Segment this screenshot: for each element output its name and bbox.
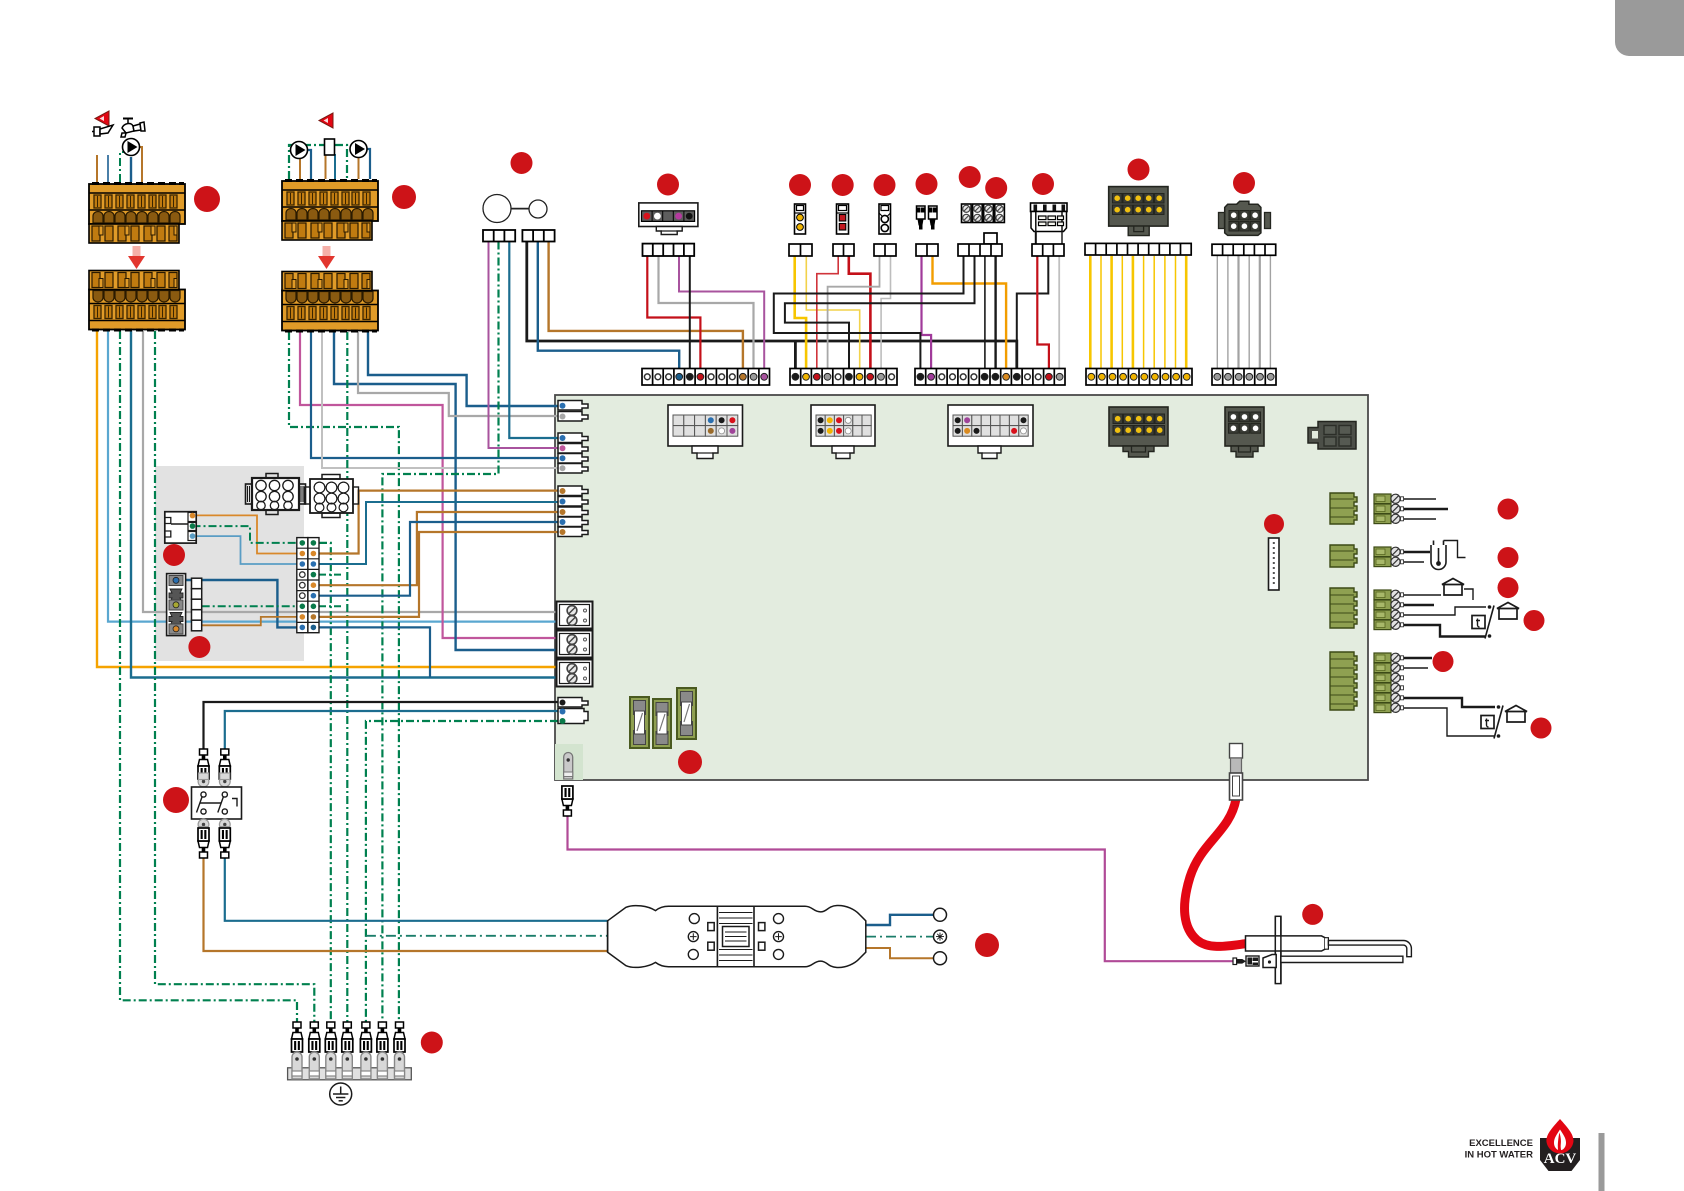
wire: connector2 green earth loop around pumps xyxy=(289,145,347,179)
igniter upper electrode rod with bend xyxy=(1328,941,1411,957)
wire: gauge earth green to ground terminal 6 xyxy=(382,242,498,1025)
D2 strip xyxy=(1212,244,1276,255)
connector D1 above board (yellow pins) xyxy=(1109,187,1168,236)
wire: grayzone cells green to strip row7 xyxy=(202,605,297,607)
callout circle: relay xyxy=(1032,173,1054,195)
thermostat switch 1 xyxy=(1472,605,1494,638)
relay strip xyxy=(1032,244,1064,256)
PCB right green block b2 xyxy=(1330,545,1357,567)
wire: sensorA yellow thin to strip2 cell7 xyxy=(806,256,859,374)
callout circle: sensorC xyxy=(874,174,896,196)
wire: plug orange to strip3 cell9 xyxy=(933,256,1007,374)
wire: sensorA yellow thick to strip2 cell2 xyxy=(795,256,806,374)
off-board screw block s2 xyxy=(1374,541,1466,570)
PCB screw block S3 xyxy=(557,660,593,687)
svg-text:ACV: ACV xyxy=(1544,1151,1577,1167)
callout circle: sensorB xyxy=(832,174,854,196)
red marker triangle connector2 xyxy=(319,113,333,128)
wire: connector1 top brown from pump right xyxy=(140,147,142,182)
wire: grayzone strip row6 blue to PCB conn C4 xyxy=(319,522,558,596)
callout circle: right s4b xyxy=(1531,718,1552,739)
PCB lighter sub-area bottom-left xyxy=(555,744,583,780)
wire: D1 yellow bundle to strip4 xyxy=(1090,256,1186,374)
wire: connector1 light blue to PCB screw block1 xyxy=(108,331,558,622)
PCB bottom fuse holder xyxy=(1230,744,1243,801)
switch lug top right xyxy=(219,773,230,787)
wire: harness right brown to ring xyxy=(866,948,933,958)
wire: grayzone strip row3 blue to PCB conn C2 xyxy=(319,502,558,564)
D1 strip xyxy=(1085,243,1191,255)
wire: grayzone strip row2 brown to PCB conn C1 xyxy=(319,491,558,554)
terminal strip strip3 xyxy=(915,369,1065,386)
wire: sensorC gray to strip2 cell4 xyxy=(828,256,880,374)
connector assembly 1 upper orange plug xyxy=(89,182,185,243)
wire: black bus drop to strip2 cell1 xyxy=(794,341,797,374)
connector D2 above board (6 white pins) xyxy=(1219,201,1271,235)
faucet icon xyxy=(121,119,145,138)
switch lug bottom right xyxy=(219,819,230,833)
wire: relay gray to strip3 cell14 xyxy=(1058,256,1060,374)
burner icon xyxy=(92,125,113,136)
connector assembly 1 lower orange plug (mirrored) xyxy=(89,271,185,332)
red arrow between connector1 plugs xyxy=(128,246,145,269)
wire: sensorB red thick to strip2 cell8 xyxy=(849,256,871,374)
wire: connector1 gray to PCB screw block1 xyxy=(143,331,558,612)
wire: screwblock black B to strip2 cell6 xyxy=(785,256,975,374)
wire: PCB blue to switch xyxy=(225,711,558,749)
wire: grayzone latch blue to block strip row3 xyxy=(193,536,298,564)
connector assembly 2 upper orange plug xyxy=(282,179,378,240)
switch box xyxy=(192,787,242,819)
callout circle: gauge xyxy=(511,152,533,174)
PCB fuse F2 xyxy=(653,699,671,748)
wire: connector1 top stub brown xyxy=(96,155,98,182)
PCB left edge connector B (4 units) xyxy=(558,433,588,473)
round 9pin connector R2 xyxy=(305,475,359,518)
switch fork top blue xyxy=(219,749,230,779)
terminal strip strip5 xyxy=(1212,369,1276,386)
wire: plug purple to strip3 cell2 xyxy=(922,256,932,374)
PCB connector P3 xyxy=(948,405,1033,459)
wire: igniter magenta supply xyxy=(568,810,1234,961)
ACV logo flame xyxy=(1546,1119,1573,1153)
pump P1 (connector1) xyxy=(123,139,140,156)
callout circle: grayzone1 xyxy=(163,544,185,566)
callout circle: connector1 xyxy=(194,186,220,212)
harness circles left xyxy=(689,914,699,924)
wire: D2 gray bundle to strip5 xyxy=(1217,256,1270,374)
wire: connector2 top blue valve xyxy=(334,154,336,179)
wire: display gray to strip1 cell11 xyxy=(659,256,754,374)
wire: display red to strip1 cell6 xyxy=(647,256,700,374)
svg-text:IN HOT WATER: IN HOT WATER xyxy=(1465,1150,1534,1161)
wire: grayzone 4pin blue to strip row9 xyxy=(180,580,298,627)
igniter lower electrode rod xyxy=(1281,956,1403,962)
off-board screw block s4 xyxy=(1374,653,1527,739)
wire: sensorB red thin to strip2 cell3 xyxy=(817,256,838,374)
callout circle: PCB fuses xyxy=(678,750,702,774)
PCB screw block S2 xyxy=(557,631,593,658)
off-board screw block s3 xyxy=(1374,579,1519,639)
gray zone box (internal connections area) xyxy=(155,466,304,661)
switch lug bottom left xyxy=(198,819,209,833)
gauge strip B xyxy=(522,230,554,242)
wire: gauge blue to strip1 cell4 xyxy=(538,242,679,375)
terminal strip strip4 xyxy=(1086,369,1192,386)
wire: connector2 magenta to PCB screw block2 xyxy=(300,332,558,638)
wire: gauge brown to strip1 cell10 xyxy=(549,242,743,375)
igniter bracket xyxy=(1263,955,1276,968)
off-board screw block s1 xyxy=(1374,494,1448,524)
callout circle: plugs xyxy=(916,173,938,195)
red marker triangle connector1 xyxy=(95,111,109,126)
gray page bar xyxy=(1599,1133,1605,1191)
igniter flange xyxy=(1275,916,1281,983)
switch lug top left xyxy=(198,773,209,787)
connector assembly 2 lower orange plug (mirrored) xyxy=(282,272,378,333)
switch fork bottom left xyxy=(198,828,209,858)
callout circle: screwblock2 xyxy=(985,177,1007,199)
callout circle: grayzone2 xyxy=(188,636,210,658)
PCB connector D3 (4 pin) xyxy=(1308,422,1356,450)
PCB right green block b3 xyxy=(1330,588,1357,628)
wire: connector2 top brown pump2 xyxy=(358,157,360,179)
callout circle: right s1 xyxy=(1498,499,1519,520)
terminal strip strip1 xyxy=(642,369,770,386)
PCB screw block S1 xyxy=(557,602,593,629)
earth forks row xyxy=(292,1022,303,1052)
igniter assembly xyxy=(1233,916,1411,983)
white cells column xyxy=(192,578,202,631)
callout circle: connector2 xyxy=(392,185,416,209)
wire: grayzone strip row5 brown to PCB conn C3 xyxy=(319,512,558,585)
wire: harness right green to ring xyxy=(866,936,933,938)
house icon 3 xyxy=(1505,706,1527,723)
earth ground symbol xyxy=(330,1083,352,1105)
sensorB strip xyxy=(833,244,854,256)
wire: connector2 gray to PCB conn A2 xyxy=(358,332,558,416)
PCB fuse F3 xyxy=(677,688,696,739)
wire: grayzone latch orange to block strip row2 xyxy=(193,515,298,553)
screw terminal block icon xyxy=(962,204,1005,223)
wire: display purple to strip1 cell12 xyxy=(679,256,764,374)
PCB connector D2 (white pins) xyxy=(1225,407,1264,457)
sensor icon C (white) xyxy=(879,204,891,234)
house icon 1 xyxy=(1442,579,1464,596)
grayzone 2col terminal block xyxy=(297,538,319,633)
PCB connector P2 xyxy=(811,405,875,459)
display unit xyxy=(639,203,698,235)
red arrow between connector2 plugs xyxy=(318,246,335,269)
display strip xyxy=(643,244,695,256)
callout circle: D2 xyxy=(1233,172,1255,194)
wire: connector2 dark blue to PCB screw block2 xyxy=(334,332,558,650)
round 9pin connector R1 xyxy=(246,474,306,515)
wire: connector2 gray to PCB conn B4 xyxy=(322,332,558,468)
wire: connector2 dark blue to PCB conn B3 xyxy=(311,332,558,458)
switch fork bottom right xyxy=(219,828,230,858)
PCB right green block b1 xyxy=(1330,493,1357,524)
callout circle: D1 xyxy=(1128,159,1150,181)
wire: gauge teal to PCB conn B1 xyxy=(509,242,558,439)
pump P3 xyxy=(350,141,367,158)
wire: sensorC gray to strip2 cell9 xyxy=(881,256,890,374)
s3 wires xyxy=(1404,595,1486,637)
harness right ring terminals xyxy=(934,908,947,921)
sensor icon B (red) xyxy=(837,204,849,234)
callout circle: igniter xyxy=(1302,904,1323,925)
wire: screwblock black D to strip3 cell8 xyxy=(994,256,996,374)
callout circle: right s3b xyxy=(1524,610,1545,631)
switch fork top black xyxy=(198,749,209,779)
mains cable harness body xyxy=(608,905,866,967)
wire: grayzone strip row1 green to ground terminal 3 xyxy=(319,543,331,1024)
wire: harness right blue to ring xyxy=(866,915,933,925)
wire: connector2 top brown pump1 xyxy=(299,158,301,179)
PCB fuse F1 xyxy=(630,697,649,748)
s1 wires xyxy=(1404,499,1448,519)
sensorC strip xyxy=(874,244,896,256)
wire: connector2 top blue pump1 xyxy=(307,150,311,179)
pump P2 xyxy=(291,142,308,159)
wire: connector2 top brown valve xyxy=(325,155,327,179)
screwblock strip with raised cell xyxy=(958,233,1002,256)
wire: grayzone latch green to block strip row1 xyxy=(193,526,298,543)
wire: PCB earth green to ground terminal 5 xyxy=(366,721,558,1024)
sensor icon A (yellow) xyxy=(795,204,806,234)
wire: gauge purple to PCB conn B2 xyxy=(489,242,559,449)
wire: connector1 top stub light blue xyxy=(107,155,109,182)
wire: grayzone strip row9 blue long xyxy=(319,627,430,677)
valve body xyxy=(325,139,335,155)
wire: grayzone strip row8 brown to PCB conn C5 xyxy=(319,532,558,617)
igniter spade connector xyxy=(1233,956,1259,966)
wire: connector1 teal to PCB screw block3 xyxy=(131,331,558,678)
wire: black mains bus to strip3 xyxy=(527,242,1017,375)
plug terminals icon xyxy=(917,206,938,229)
s4 wires xyxy=(1404,658,1495,736)
wire: harness earth green xyxy=(366,935,607,937)
4pin block connector xyxy=(167,574,186,636)
wire: connector2 blue to PCB conn A1 xyxy=(368,332,558,406)
relay box icon xyxy=(1031,203,1068,244)
wire: switch blue to harness xyxy=(225,858,608,921)
wire: connector1 earth green to ground terminal 1 xyxy=(120,331,297,1024)
latch connector xyxy=(165,512,196,543)
wire: screwblock black A to strip3 cell1 xyxy=(774,256,964,374)
wire: connector2 earth green to ground terminal 7 xyxy=(289,332,399,1024)
PCB bottom-left earth lug xyxy=(564,753,573,780)
wire: connector1 top green earth to pump xyxy=(120,152,128,182)
earth bus bar xyxy=(288,1068,412,1080)
earth lugs row xyxy=(292,1052,302,1079)
PCB connector D1 (yellow pins) xyxy=(1109,407,1168,457)
s2 wires xyxy=(1404,552,1430,562)
thermostat switch 2 xyxy=(1481,705,1503,738)
callout circle: earth strip xyxy=(421,1032,443,1054)
PCB right green block b4 xyxy=(1330,652,1357,710)
wire: switch brown to harness xyxy=(204,858,608,951)
harness circles right xyxy=(774,914,784,924)
wire: connector1 top dark blue to pump xyxy=(130,157,132,182)
PCB connector P1 (display mate) xyxy=(668,405,743,459)
house icon 2 xyxy=(1497,603,1519,620)
svg-text:EXCELLENCE: EXCELLENCE xyxy=(1469,1138,1533,1149)
igniter flange lines over body xyxy=(1275,916,1281,983)
callout circle: sensorA xyxy=(789,174,811,196)
callout circle: PCB pin strip xyxy=(1264,514,1284,534)
igniter body xyxy=(1246,936,1326,951)
wire: connector1 orange to PCB terminal xyxy=(97,331,558,667)
sensorA strip xyxy=(789,244,812,256)
wire: relay red to strip3 cell13 xyxy=(1037,256,1049,374)
terminal strip strip2 xyxy=(790,369,897,386)
wire: grayzone strip row7 green stub xyxy=(319,605,342,607)
gauge strip A xyxy=(483,230,515,242)
PCB left edge connector A (2 units) xyxy=(558,401,588,422)
callout circle: right s3a xyxy=(1498,577,1519,598)
pressure gauge icon xyxy=(483,195,547,223)
callout circle: switch xyxy=(163,787,189,813)
plug strip xyxy=(916,244,938,256)
wire: display black to strip1 cell5 xyxy=(689,256,691,374)
callout circle: right s4a xyxy=(1433,651,1454,672)
PCB small connector (3 pin) xyxy=(558,698,588,725)
main PCB board xyxy=(555,395,1368,780)
callout circle: screwblock xyxy=(959,166,981,188)
wire: connector2 earth green to ground terminal 4 xyxy=(346,332,348,1024)
gray corner tab top-right xyxy=(1615,0,1684,56)
wire: connector2 top blue pump2 xyxy=(367,149,371,179)
wire: grayzone strip row4 green stub xyxy=(319,574,342,576)
wire: grayzone cells brown to strip row8 xyxy=(202,617,297,625)
callout circle: display xyxy=(657,174,679,196)
wire: connector1 earth green to ground terminal 2 xyxy=(155,331,314,1024)
callout circle: right s2 xyxy=(1498,547,1519,568)
ACV logo shield xyxy=(1540,1138,1580,1171)
wire: PCB black to switch xyxy=(204,702,559,749)
harness center connector block xyxy=(717,906,754,966)
wire: screwblock black C to strip3 cell7 xyxy=(984,256,986,374)
PCB left edge connector C (5 units) xyxy=(558,486,588,537)
wire: relay black to strip3 cell10 via bus xyxy=(1017,256,1049,341)
callout circle: harness xyxy=(975,933,999,957)
earth fork below PCB xyxy=(562,786,573,816)
PCB vertical pin strip xyxy=(1269,538,1280,590)
wire: ignition cable thick red xyxy=(1185,799,1247,946)
flue sensor bulb icon xyxy=(1431,541,1466,570)
